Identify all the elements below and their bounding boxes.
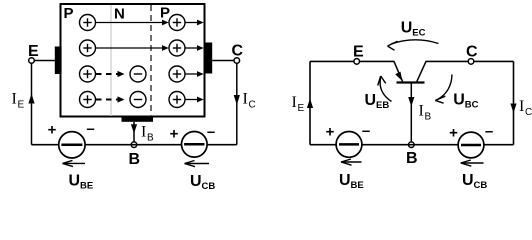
svg-text:C: C [232, 43, 244, 60]
svg-text:+: + [449, 125, 458, 142]
svg-text:I: I [12, 91, 17, 108]
wire left vertical [309, 61, 311, 144]
wire row1 drift arrow [96, 20, 169, 26]
svg-text:BE: BE [80, 181, 93, 192]
svg-text:U: U [69, 173, 81, 190]
hole row4 left (+) [80, 92, 96, 108]
voltage arc U_EB [378, 76, 392, 102]
node B [131, 142, 137, 148]
voltage source U_BE (right) inner bar [339, 143, 359, 146]
svg-text:B: B [147, 133, 154, 144]
row3 arrow to collector contact [185, 71, 204, 77]
voltage source U_CB inner bar [184, 143, 204, 146]
svg-text:–: – [362, 123, 370, 140]
row4 recombination dashed arrow [96, 96, 125, 102]
svg-text:P: P [160, 5, 170, 22]
transistor body rectangle [61, 4, 205, 117]
wire base down to node B [410, 83, 412, 145]
U_BE polarity arrow (right diagram) [341, 159, 362, 165]
node C (right diagram) [468, 59, 474, 65]
svg-text:U: U [365, 92, 377, 109]
node C [234, 58, 240, 64]
voltage source U_BE inner bar [61, 144, 82, 147]
emitter contact bar [55, 47, 62, 75]
svg-text:U: U [453, 92, 465, 109]
svg-text:–: – [207, 124, 215, 141]
U_CB polarity arrow (right diagram) [461, 160, 484, 166]
svg-text:U: U [462, 172, 474, 189]
svg-text:E: E [28, 43, 39, 60]
svg-text:I: I [519, 98, 524, 115]
hole row2 right (+) [169, 40, 185, 56]
node E (right diagram) [354, 59, 360, 65]
wire right vertical [513, 61, 515, 144]
svg-text:BE: BE [351, 180, 364, 191]
svg-text:BC: BC [465, 100, 479, 111]
row2 arrow to collector contact [185, 45, 204, 51]
svg-text:B: B [425, 112, 432, 123]
svg-text:EC: EC [412, 28, 425, 39]
current I_E arrow [28, 94, 34, 104]
svg-text:C: C [525, 107, 532, 118]
svg-text:B: B [129, 151, 141, 168]
hole row1 right (+) [169, 15, 185, 31]
svg-text:I: I [141, 124, 146, 141]
base contact bar [122, 116, 154, 122]
voltage source U_CB (right diagram) circle [458, 132, 484, 158]
voltage arc U_BC [435, 75, 452, 104]
wire E down to bottom [31, 63, 33, 144]
hole row1 left (+) [80, 15, 96, 31]
current I_B arrow [131, 124, 137, 133]
wire C down to bottom [236, 63, 238, 144]
wire top-right horizontal [426, 60, 514, 62]
current I_C arrow (right diagram) [510, 104, 516, 114]
svg-text:U: U [190, 173, 202, 190]
transistor Q1 emitter arrowhead (PNP) [395, 72, 402, 81]
bottom wire segment C-side [207, 144, 237, 146]
current I_B arrow (right diagram) [408, 97, 414, 107]
wire top-left horizontal [310, 60, 395, 62]
svg-text:E: E [18, 100, 25, 111]
wire base contact down to node B [133, 122, 135, 145]
svg-text:I: I [419, 103, 424, 120]
voltage source U_CB (right) inner bar [461, 144, 481, 147]
electron row3 (-) [130, 66, 146, 82]
bottom wire right segment (right diagram) [484, 144, 514, 146]
svg-text:CB: CB [202, 181, 216, 192]
current I_E arrow (right diagram) [307, 99, 313, 109]
voltage arc U_EC [388, 40, 439, 50]
row4 arrow to collector contact [185, 97, 204, 103]
P-N junction boundary (light) [110, 5, 112, 116]
svg-text:–: – [86, 121, 94, 138]
voltage source U_CB circle [182, 132, 208, 158]
svg-text:EB: EB [376, 100, 389, 111]
svg-text:E: E [298, 103, 305, 114]
hole row3 right (+) [169, 66, 185, 82]
current I_C arrow [234, 95, 240, 105]
svg-text:B: B [406, 150, 418, 167]
hole row4 right (+) [169, 92, 185, 108]
svg-text:+: + [48, 122, 57, 139]
U_CB polarity arrow [185, 161, 210, 167]
svg-text:P: P [64, 5, 74, 22]
hole row2 left (+) [80, 40, 96, 56]
bottom wire left segment (right diagram) [310, 144, 336, 146]
electron row4 (-) [130, 92, 146, 108]
bottom wire segment E-side [32, 144, 60, 146]
svg-text:I: I [243, 91, 248, 108]
row1 arrow to collector contact [185, 20, 204, 26]
node E [29, 58, 35, 64]
svg-text:U: U [339, 172, 351, 189]
N-P junction boundary (dashed) [150, 5, 152, 116]
hole row3 left (+) [80, 66, 96, 82]
svg-text:–: – [485, 123, 493, 140]
transistor Q1 emitter lead [394, 61, 403, 81]
node B (right diagram) [409, 142, 415, 148]
transistor Q1 collector lead [417, 61, 426, 81]
svg-text:+: + [326, 124, 335, 141]
svg-text:U: U [401, 20, 413, 37]
svg-text:E: E [353, 44, 364, 61]
wire row2 drift arrow [96, 45, 169, 51]
row3 recombination dashed arrow [96, 71, 125, 77]
wire collector contact to C [212, 60, 234, 62]
svg-text:C: C [249, 100, 256, 111]
svg-text:+: + [170, 126, 179, 143]
svg-text:I: I [292, 94, 297, 111]
svg-text:N: N [114, 6, 125, 23]
voltage source U_BE circle [59, 132, 85, 158]
bottom wire middle segment (right diagram) [362, 144, 459, 146]
voltage source U_BE (right diagram) circle [336, 132, 362, 158]
bottom wire segment middle [85, 144, 181, 146]
U_BE polarity arrow [63, 160, 86, 166]
transistor Q1 base bar [397, 81, 425, 83]
wire E to emitter contact [34, 60, 55, 62]
svg-text:C: C [466, 44, 478, 61]
collector contact bar [204, 43, 212, 74]
svg-text:CB: CB [474, 180, 488, 191]
